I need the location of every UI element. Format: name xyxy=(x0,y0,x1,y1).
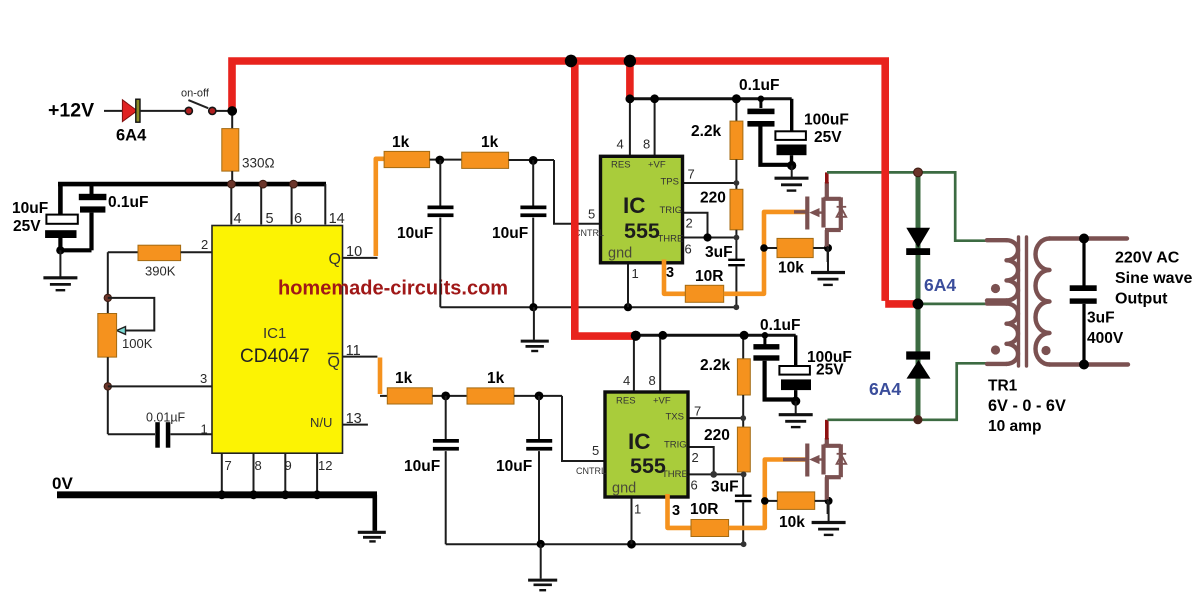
svg-text:6A4: 6A4 xyxy=(869,379,901,399)
svg-text:gnd: gnd xyxy=(612,481,636,497)
svg-text:homemade-circuits.com: homemade-circuits.com xyxy=(278,278,508,300)
svg-text:10uF: 10uF xyxy=(492,225,528,242)
svg-text:8: 8 xyxy=(643,137,650,152)
svg-text:10k: 10k xyxy=(779,514,805,531)
svg-text:3uF: 3uF xyxy=(711,479,739,496)
svg-text:0.1uF: 0.1uF xyxy=(739,77,779,94)
svg-text:7: 7 xyxy=(688,167,695,182)
svg-text:RES: RES xyxy=(616,396,636,407)
svg-text:25V: 25V xyxy=(814,129,842,146)
svg-text:390K: 390K xyxy=(145,264,176,279)
svg-text:Q: Q xyxy=(328,354,340,371)
svg-text:TXS: TXS xyxy=(666,412,684,423)
svg-text:2: 2 xyxy=(201,237,208,252)
svg-text:1k: 1k xyxy=(487,370,505,387)
svg-text:+12V: +12V xyxy=(48,100,94,122)
svg-text:TRIG: TRIG xyxy=(660,205,683,216)
svg-text:7: 7 xyxy=(694,404,701,419)
svg-text:1: 1 xyxy=(634,502,641,517)
svg-text:2: 2 xyxy=(686,216,693,231)
svg-text:0.01µF: 0.01µF xyxy=(146,411,186,425)
svg-text:5: 5 xyxy=(588,207,595,222)
svg-text:100uF: 100uF xyxy=(804,112,849,129)
svg-text:gnd: gnd xyxy=(608,246,632,262)
svg-text:3uF: 3uF xyxy=(1087,310,1115,327)
svg-text:TRIG: TRIG xyxy=(664,440,687,451)
svg-text:5: 5 xyxy=(266,211,274,227)
svg-text:IC: IC xyxy=(623,193,646,218)
svg-text:8: 8 xyxy=(649,373,656,388)
svg-text:10uF: 10uF xyxy=(397,225,433,242)
svg-text:555: 555 xyxy=(624,219,660,243)
svg-text:+VF: +VF xyxy=(648,160,666,171)
svg-text:2.2k: 2.2k xyxy=(691,123,722,140)
svg-text:10uF: 10uF xyxy=(404,458,440,475)
svg-text:3uF: 3uF xyxy=(705,244,733,261)
svg-text:+VF: +VF xyxy=(653,396,671,407)
svg-text:10R: 10R xyxy=(690,501,718,518)
svg-text:25V: 25V xyxy=(816,362,844,379)
svg-text:0.1uF: 0.1uF xyxy=(760,317,800,334)
svg-text:0V: 0V xyxy=(52,474,73,493)
svg-text:6V - 0 - 6V: 6V - 0 - 6V xyxy=(988,397,1066,415)
svg-text:1: 1 xyxy=(632,266,639,281)
svg-text:12: 12 xyxy=(318,458,332,473)
svg-text:CNTRL: CNTRL xyxy=(576,466,606,476)
svg-text:4: 4 xyxy=(234,211,242,227)
svg-text:4: 4 xyxy=(617,137,624,152)
svg-text:220V AC: 220V AC xyxy=(1115,250,1180,267)
svg-text:555: 555 xyxy=(630,454,666,478)
svg-text:3: 3 xyxy=(666,265,674,281)
svg-text:THRE: THRE xyxy=(662,469,688,480)
svg-text:6A4: 6A4 xyxy=(924,275,956,295)
svg-text:6A4: 6A4 xyxy=(116,127,147,145)
svg-text:THRE: THRE xyxy=(658,234,684,245)
svg-text:220: 220 xyxy=(704,427,730,444)
svg-text:4: 4 xyxy=(623,373,630,388)
svg-text:100K: 100K xyxy=(122,336,153,351)
svg-text:0.1uF: 0.1uF xyxy=(108,194,148,211)
svg-text:3: 3 xyxy=(672,503,680,519)
svg-text:IC: IC xyxy=(628,429,651,454)
svg-text:5: 5 xyxy=(592,443,599,458)
svg-text:220: 220 xyxy=(700,190,726,207)
svg-text:10k: 10k xyxy=(778,260,804,277)
svg-text:TR1: TR1 xyxy=(988,378,1018,395)
svg-text:Q: Q xyxy=(329,251,341,268)
svg-text:TPS: TPS xyxy=(661,177,679,188)
svg-text:400V: 400V xyxy=(1087,330,1124,347)
svg-text:10R: 10R xyxy=(695,268,723,285)
svg-text:CD4047: CD4047 xyxy=(240,346,310,367)
svg-text:1k: 1k xyxy=(395,370,413,387)
svg-text:Sine wave: Sine wave xyxy=(1115,270,1192,287)
svg-text:25V: 25V xyxy=(13,218,41,235)
svg-text:RES: RES xyxy=(611,160,631,171)
svg-text:1: 1 xyxy=(201,422,208,437)
svg-text:N/U: N/U xyxy=(310,415,332,430)
svg-text:1k: 1k xyxy=(481,134,499,151)
svg-text:2.2k: 2.2k xyxy=(700,357,731,374)
svg-text:330Ω: 330Ω xyxy=(242,156,275,171)
svg-text:10 amp: 10 amp xyxy=(988,418,1041,435)
svg-text:10uF: 10uF xyxy=(496,458,532,475)
svg-text:Output: Output xyxy=(1115,291,1168,308)
svg-text:14: 14 xyxy=(329,211,345,227)
svg-text:1k: 1k xyxy=(392,134,410,151)
svg-text:6: 6 xyxy=(685,242,692,257)
svg-text:6: 6 xyxy=(294,211,302,227)
svg-text:10uF: 10uF xyxy=(12,200,48,217)
svg-text:7: 7 xyxy=(225,458,232,473)
svg-text:3: 3 xyxy=(200,371,207,386)
svg-text:2: 2 xyxy=(692,450,699,465)
svg-text:6: 6 xyxy=(691,478,698,493)
svg-text:IC1: IC1 xyxy=(263,325,286,342)
svg-text:8: 8 xyxy=(255,458,262,473)
svg-text:on-off: on-off xyxy=(181,88,210,100)
